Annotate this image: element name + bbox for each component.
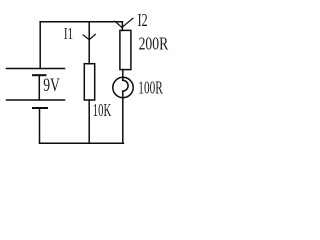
battery B1 cell 1 short plate xyxy=(33,74,46,76)
svg-text:100R: 100R xyxy=(138,77,163,97)
wire: between battery cells xyxy=(38,75,40,100)
lamp L1 filament loop xyxy=(123,80,129,91)
wire: middle branch bottom xyxy=(88,100,90,143)
battery B1 cell 1 long plate xyxy=(7,68,65,70)
resistor R1 10K body xyxy=(84,64,94,100)
wire: top rail xyxy=(40,21,122,23)
svg-text:200R: 200R xyxy=(139,34,169,54)
battery B1 cell 2 long plate xyxy=(7,99,65,101)
current arrow I2 xyxy=(115,18,133,27)
wire: resistor R2 to lamp xyxy=(122,70,124,81)
current arrow I1 xyxy=(83,34,95,39)
wire: battery negative lead xyxy=(39,108,41,143)
resistor R2 200R body xyxy=(120,30,131,69)
wire: middle branch top xyxy=(88,22,90,64)
wire: lamp to bottom rail xyxy=(122,91,124,143)
lamp L1 body xyxy=(113,77,133,97)
svg-text:I1: I1 xyxy=(64,24,73,43)
wire: bottom rail xyxy=(40,142,124,144)
svg-text:10K: 10K xyxy=(93,100,111,120)
wire: battery positive lead xyxy=(39,22,41,69)
battery B1 cell 2 short plate xyxy=(33,107,47,109)
svg-text:I2: I2 xyxy=(138,10,148,30)
svg-text:9V: 9V xyxy=(43,75,60,96)
wire: right branch top xyxy=(121,22,123,31)
